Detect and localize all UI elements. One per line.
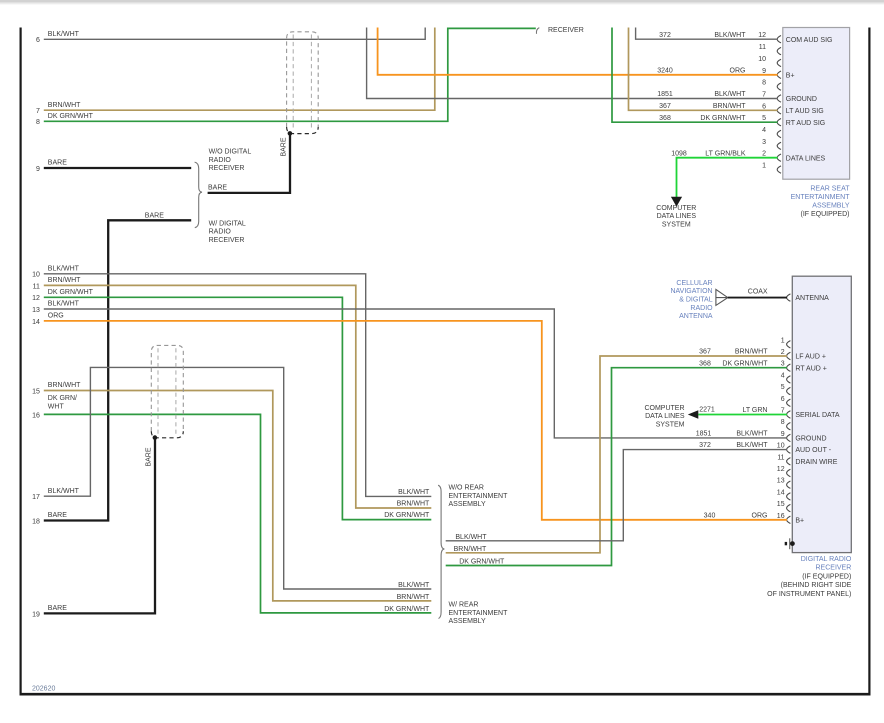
wire 3240 ORG to C1 pin 9 [378, 28, 778, 75]
svg-text:RADIO: RADIO [690, 305, 713, 312]
svg-text:367: 367 [659, 103, 671, 110]
svg-text:372: 372 [659, 32, 671, 39]
junction dot on S1 drain [288, 131, 293, 136]
svg-text:BRN/WHT: BRN/WHT [713, 103, 746, 110]
svg-text:DK GRN/WHT: DK GRN/WHT [48, 289, 94, 296]
pin ANTENNA of C2 [787, 294, 791, 301]
svg-text:16: 16 [32, 412, 40, 419]
svg-text:COAX: COAX [748, 289, 768, 296]
antenna symbol [716, 289, 728, 305]
svg-text:BLK/WHT: BLK/WHT [736, 431, 768, 438]
svg-text:DATA LINES: DATA LINES [786, 155, 826, 162]
brace fragment at cut wire 8 [536, 28, 539, 34]
svg-text:(IF EQUIPPED): (IF EQUIPPED) [802, 573, 851, 580]
svg-text:DK GRN/WHT: DK GRN/WHT [48, 113, 94, 120]
svg-text:BLK/WHT: BLK/WHT [48, 31, 80, 38]
svg-text:BRN/WHT: BRN/WHT [735, 349, 768, 356]
svg-text:7: 7 [36, 108, 40, 115]
svg-text:15: 15 [32, 388, 40, 395]
svg-text:B+: B+ [795, 517, 804, 524]
svg-text:LF AUD +: LF AUD + [795, 354, 826, 361]
svg-text:8: 8 [762, 80, 766, 87]
svg-text:BARE: BARE [48, 605, 67, 612]
svg-text:368: 368 [699, 360, 711, 367]
junction dot on S2 drain [153, 435, 158, 440]
svg-text:5: 5 [781, 384, 785, 391]
svg-text:RT AUD +: RT AUD + [795, 365, 826, 372]
svg-text:ASSEMBLY: ASSEMBLY [812, 203, 850, 210]
svg-text:BRN/WHT: BRN/WHT [454, 546, 487, 553]
svg-text:3: 3 [762, 139, 766, 146]
svg-text:9: 9 [36, 166, 40, 173]
svg-text:7: 7 [781, 408, 785, 415]
svg-text:BARE: BARE [145, 447, 152, 466]
svg-text:RECEIVER: RECEIVER [548, 27, 584, 34]
svg-text:3: 3 [781, 361, 785, 368]
svg-text:368: 368 [659, 115, 671, 122]
svg-text:BRN/WHT: BRN/WHT [397, 501, 430, 508]
svg-text:12: 12 [32, 295, 40, 302]
svg-text:2271: 2271 [699, 407, 715, 414]
svg-text:19: 19 [32, 611, 40, 618]
svg-text:ANTENNA: ANTENNA [795, 295, 829, 302]
svg-text:2: 2 [781, 349, 785, 356]
svg-text:GROUND: GROUND [786, 96, 817, 103]
svg-text:202620: 202620 [32, 686, 55, 693]
svg-text:BARE: BARE [145, 213, 164, 220]
svg-text:OF INSTRUMENT PANEL): OF INSTRUMENT PANEL) [767, 591, 851, 598]
svg-text:8: 8 [36, 119, 40, 126]
svg-text:13: 13 [32, 307, 40, 314]
svg-text:7: 7 [762, 92, 766, 99]
svg-text:367: 367 [699, 349, 711, 356]
svg-text:1851: 1851 [696, 431, 712, 438]
svg-text:6: 6 [36, 37, 40, 44]
svg-text:REAR SEAT: REAR SEAT [810, 185, 850, 192]
svg-text:DK GRN/: DK GRN/ [48, 395, 77, 402]
connector C2 DIGITAL RADIO RECEIVER [792, 276, 851, 552]
svg-text:BLK/WHT: BLK/WHT [48, 301, 80, 308]
svg-text:ENTERTAINMENT: ENTERTAINMENT [791, 194, 851, 201]
svg-text:11: 11 [759, 44, 766, 51]
svg-text:BRN/WHT: BRN/WHT [48, 382, 81, 389]
case ground symbol at C2 [785, 542, 787, 545]
brace W/O vs W/ REAR ENTERTAINMENT ASSEMBLY options [438, 485, 444, 618]
svg-text:4: 4 [762, 127, 766, 134]
brace W/O vs W/ DIGITAL RADIO RECEIVER options [195, 162, 202, 228]
svg-text:LT GRN/BLK: LT GRN/BLK [705, 150, 746, 157]
svg-text:W/ REAR: W/ REAR [449, 602, 479, 609]
svg-text:SYSTEM: SYSTEM [662, 221, 691, 228]
svg-text:15: 15 [777, 501, 785, 508]
wire 2271 LT GRN from C2 pin 7 [698, 414, 787, 416]
svg-text:DATA LINES: DATA LINES [657, 213, 697, 220]
wire 372 BLK/WHT from C2 pin 10 [446, 450, 787, 541]
svg-text:6: 6 [762, 103, 766, 110]
svg-text:BRN/WHT: BRN/WHT [48, 277, 81, 284]
svg-text:DK GRN/WHT: DK GRN/WHT [384, 512, 430, 519]
svg-text:12: 12 [777, 466, 785, 473]
svg-text:ENTERTAINMENT: ENTERTAINMENT [449, 610, 509, 617]
svg-text:BLK/WHT: BLK/WHT [48, 488, 80, 495]
svg-text:(BEHIND RIGHT SIDE: (BEHIND RIGHT SIDE [781, 582, 852, 589]
svg-text:13: 13 [777, 478, 785, 485]
svg-text:12: 12 [758, 32, 766, 39]
svg-text:W/O DIGITAL: W/O DIGITAL [209, 149, 252, 156]
svg-text:17: 17 [32, 494, 40, 501]
svg-text:RECEIVER: RECEIVER [209, 165, 245, 172]
svg-text:COMPUTER: COMPUTER [656, 205, 696, 212]
svg-text:10: 10 [777, 443, 785, 450]
shield S2 (twisted shielded cable) [151, 345, 183, 431]
svg-text:AUD OUT -: AUD OUT - [795, 447, 831, 454]
svg-text:BRN/WHT: BRN/WHT [48, 102, 81, 109]
wire 372 BLK/WHT to C1 pin 12 [636, 28, 778, 40]
wire 368 DK GRN/WHT to C2 pin 3 [446, 368, 787, 566]
svg-text:NAVIGATION: NAVIGATION [670, 288, 712, 295]
svg-text:2: 2 [762, 151, 766, 158]
svg-text:BLK/WHT: BLK/WHT [398, 582, 430, 589]
svg-text:BLK/WHT: BLK/WHT [398, 489, 430, 496]
svg-text:18: 18 [32, 518, 40, 525]
svg-text:RADIO: RADIO [209, 229, 232, 236]
svg-text:W/ DIGITAL: W/ DIGITAL [209, 220, 246, 227]
svg-text:BLK/WHT: BLK/WHT [48, 265, 80, 272]
svg-text:9: 9 [762, 68, 766, 75]
svg-text:LT AUD SIG: LT AUD SIG [786, 108, 824, 115]
wire 1098 LT GRN/BLK from C1 pin 2 [677, 158, 778, 197]
svg-text:LT GRN: LT GRN [742, 407, 767, 414]
svg-text:BARE: BARE [48, 512, 67, 519]
svg-text:BLK/WHT: BLK/WHT [736, 442, 768, 449]
wire 1851 BLK/WHT to C1 pin 7 [367, 28, 778, 99]
svg-text:RECEIVER: RECEIVER [816, 565, 852, 572]
svg-text:BLK/WHT: BLK/WHT [714, 91, 746, 98]
svg-text:BLK/WHT: BLK/WHT [714, 32, 746, 39]
svg-text:6: 6 [781, 396, 785, 403]
connector C1 REAR SEAT ENTERTAINMENT ASSEMBLY [783, 28, 850, 180]
svg-text:14: 14 [32, 319, 40, 326]
svg-text:(IF EQUIPPED): (IF EQUIPPED) [800, 211, 849, 218]
svg-text:SERIAL DATA: SERIAL DATA [795, 412, 840, 419]
svg-text:WHT: WHT [48, 404, 65, 411]
svg-text:8: 8 [781, 419, 785, 426]
svg-text:11: 11 [777, 454, 784, 461]
svg-text:DATA LINES: DATA LINES [645, 413, 685, 420]
svg-text:3240: 3240 [657, 67, 673, 74]
svg-text:1098: 1098 [671, 150, 687, 157]
svg-text:16: 16 [777, 513, 785, 520]
svg-text:BARE: BARE [48, 160, 67, 167]
svg-text:4: 4 [781, 372, 785, 379]
svg-text:W/O REAR: W/O REAR [449, 485, 484, 492]
svg-text:ASSEMBLY: ASSEMBLY [449, 618, 487, 625]
svg-text:DK GRN/WHT: DK GRN/WHT [722, 360, 768, 367]
svg-text:RADIO: RADIO [209, 157, 232, 164]
svg-text:10: 10 [758, 56, 766, 63]
svg-text:ASSEMBLY: ASSEMBLY [449, 501, 487, 508]
svg-text:CELLULAR: CELLULAR [676, 280, 712, 287]
svg-text:DRAIN WIRE: DRAIN WIRE [795, 459, 837, 466]
shield S1 (twisted shielded cable) [287, 32, 319, 127]
svg-text:BARE: BARE [208, 185, 227, 192]
svg-text:10: 10 [32, 272, 40, 279]
svg-text:ORG: ORG [752, 512, 768, 519]
svg-text:RT AUD SIG: RT AUD SIG [786, 120, 825, 127]
svg-text:1: 1 [781, 337, 785, 344]
svg-text:ENTERTAINMENT: ENTERTAINMENT [449, 493, 509, 500]
svg-text:340: 340 [704, 512, 716, 519]
svg-text:GROUND: GROUND [795, 436, 826, 443]
svg-text:11: 11 [33, 283, 40, 290]
wire 367 BRN/WHT to C2 pin 2 [446, 356, 787, 553]
svg-text:RECEIVER: RECEIVER [209, 237, 245, 244]
arrow to COMPUTER DATA LINES SYSTEM (top) [671, 197, 682, 207]
svg-text:9: 9 [781, 431, 785, 438]
svg-text:372: 372 [699, 442, 711, 449]
svg-text:14: 14 [777, 489, 785, 496]
svg-text:BLK/WHT: BLK/WHT [455, 534, 487, 541]
svg-text:DK GRN/WHT: DK GRN/WHT [384, 606, 430, 613]
svg-text:& DIGITAL: & DIGITAL [679, 297, 712, 304]
svg-text:DIGITAL RADIO: DIGITAL RADIO [801, 556, 852, 563]
svg-text:B+: B+ [786, 72, 795, 79]
svg-text:ORG: ORG [730, 67, 746, 74]
wire 367 BRN/WHT to C1 pin 6 [629, 28, 778, 111]
arrow to COMPUTER DATA LINES SYSTEM (middle) [688, 410, 699, 419]
svg-text:1851: 1851 [657, 91, 673, 98]
svg-text:COMPUTER: COMPUTER [644, 405, 684, 412]
svg-text:5: 5 [762, 115, 766, 122]
svg-text:DK GRN/WHT: DK GRN/WHT [700, 115, 746, 122]
svg-text:SYSTEM: SYSTEM [656, 421, 685, 428]
svg-text:ORG: ORG [48, 313, 64, 320]
svg-text:COM AUD SIG: COM AUD SIG [786, 37, 833, 44]
svg-text:BRN/WHT: BRN/WHT [397, 594, 430, 601]
wire 368 DK GRN/WHT to C1 pin 5 [612, 28, 778, 123]
svg-text:ANTENNA: ANTENNA [679, 313, 713, 320]
svg-text:1: 1 [762, 163, 766, 170]
svg-text:DK GRN/WHT: DK GRN/WHT [459, 559, 505, 566]
svg-text:BARE: BARE [280, 137, 287, 156]
wire COAX to C2 ANTENNA pin [728, 297, 787, 299]
